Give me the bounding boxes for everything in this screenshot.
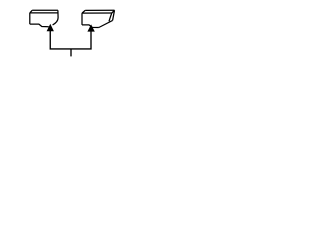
wire: left shaft + bus + right shaft bbox=[50, 31, 91, 49]
tray B2 (right 3D stacked-bin glyph) bbox=[82, 10, 115, 27]
front-right edge bbox=[109, 13, 112, 21]
arrowhead into right tray bbox=[87, 24, 94, 31]
left vertical edge bbox=[29, 13, 31, 24]
bottom edge with step bbox=[30, 24, 49, 27]
bottom edge with step bbox=[82, 25, 99, 28]
back-top edge bbox=[85, 9, 114, 11]
bottom-right diagonal bbox=[99, 20, 113, 27]
arrowhead into left tray bbox=[47, 24, 54, 32]
left slant bbox=[30, 10, 32, 13]
wire: center input stub bbox=[70, 49, 72, 56]
left vertical edge bbox=[81, 13, 83, 25]
tray B1 (left 3D stacked-bin glyph) bbox=[30, 10, 58, 26]
right edge curving to arrow tip bbox=[53, 10, 59, 25]
front-top edge bbox=[82, 12, 112, 14]
left slant bbox=[82, 10, 85, 13]
back-top edge bbox=[32, 9, 58, 11]
right top slant bbox=[112, 10, 115, 13]
back-right edge bbox=[113, 10, 115, 20]
front-top edge bbox=[30, 12, 58, 14]
